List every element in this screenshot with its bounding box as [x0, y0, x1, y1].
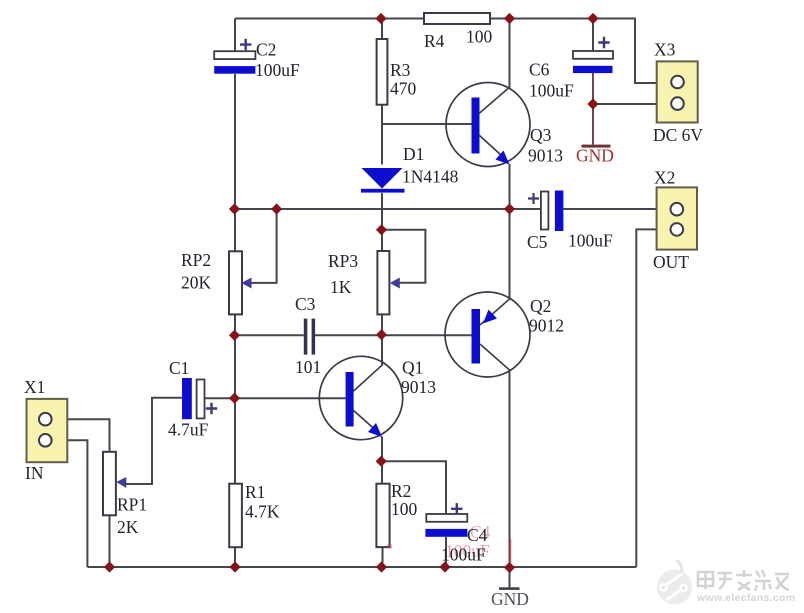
svg-text:9013: 9013: [401, 377, 436, 397]
junction mid rail Q3 emitter: [504, 203, 515, 214]
capacitor C1 positive plate: [197, 380, 205, 419]
svg-text:470: 470: [390, 79, 417, 99]
wire C2 top stub: [234, 19, 236, 52]
transistor Q2 base bar: [472, 309, 481, 364]
wire R3 bottom to D1: [381, 105, 383, 165]
svg-text:C6: C6: [529, 60, 550, 80]
svg-text:100uF: 100uF: [255, 60, 300, 80]
wire R1 bottom stub: [234, 547, 236, 567]
svg-text:4.7K: 4.7K: [245, 502, 280, 522]
wire C4 branch: [382, 461, 446, 514]
junction top rail R3: [375, 13, 386, 24]
wire top rail left segment: [235, 18, 424, 20]
transistor Q2 emitter lead: [480, 299, 510, 326]
capacitor C6 negative plate: [573, 66, 613, 73]
svg-text:RP1: RP1: [117, 495, 147, 515]
svg-text:R3: R3: [390, 60, 411, 80]
svg-text:Q1: Q1: [402, 358, 423, 378]
svg-text:X1: X1: [24, 377, 45, 397]
svg-text:Q2: Q2: [530, 296, 551, 316]
wire Q2 collector to bottom rail: [509, 371, 511, 568]
connector X3 pin 1: [671, 76, 684, 89]
capacitor C2 plus sign: [240, 39, 251, 50]
diode D1: [362, 168, 403, 189]
resistor R3: [377, 39, 388, 105]
wire C2 bottom to RP2: [234, 74, 236, 251]
svg-text:DC 6V: DC 6V: [653, 125, 703, 145]
svg-text:IN: IN: [25, 463, 44, 483]
connector X3 pin 2: [671, 97, 684, 110]
watermark logo pad left: [659, 583, 668, 592]
wire Q3 collector vertical: [509, 19, 511, 88]
wire C5 to X2 pin1: [564, 208, 671, 210]
watermark chinese glyph 5: [775, 574, 789, 590]
transistor Q3 collector lead: [479, 87, 510, 114]
capacitor C4 negative plate: [425, 529, 467, 537]
PLACEHOLDER-TEXT2: [657, 561, 795, 605]
potentiometer RP1: [103, 452, 116, 516]
wire Q1 emitter stub: [381, 437, 383, 462]
transistor Q3 circle: [446, 83, 530, 167]
wire C6 bottom to ground: [592, 73, 594, 145]
svg-text:www.elecfans.com: www.elecfans.com: [696, 592, 795, 604]
transistor Q3 emitter lead: [479, 135, 508, 162]
watermark logo pad right: [679, 584, 688, 593]
junction mid rail RP2 tap: [271, 203, 282, 214]
wire RP2 bottom to R1 top: [234, 314, 236, 483]
watermark chinese glyph 2: [717, 573, 732, 589]
transistor Q1 emitter lead: [353, 410, 380, 434]
wire X3 pin1 feed: [635, 19, 671, 84]
capacitor C4 positive plate: [426, 514, 467, 522]
capacitor C2 positive plate: [214, 51, 255, 59]
capacitor C1 negative plate: [182, 378, 192, 419]
wire X3 pin2 feed: [593, 103, 671, 105]
ground symbol near C6: [582, 145, 611, 148]
capacitor C5 positive plate: [541, 192, 549, 230]
junction RP3 top: [376, 224, 387, 235]
junction bottom rail C4: [439, 561, 450, 572]
transistor Q2 circle: [445, 292, 530, 377]
capacitor C3 right plate: [312, 319, 316, 355]
capacitor C6 positive plate: [573, 51, 613, 59]
junction C3 left: [229, 330, 240, 341]
svg-text:4.7uF: 4.7uF: [168, 420, 209, 440]
wire RP2 wiper tap: [248, 209, 277, 283]
junction C1 Q1 base: [229, 393, 240, 404]
transistor Q1 emitter arrow: [368, 423, 382, 437]
capacitor C1 plus sign: [206, 403, 217, 414]
wire X1 pin1 to RP1 top: [52, 419, 110, 452]
svg-text:GND: GND: [491, 589, 529, 609]
wire RP1 bottom stub: [109, 515, 111, 567]
transistor Q1 collector lead: [353, 365, 383, 392]
svg-text:C5: C5: [527, 232, 548, 252]
potentiometer RP2 wiper arrow: [242, 278, 252, 289]
svg-text:R1: R1: [245, 482, 265, 502]
red artifact near R2 bottom: [387, 545, 393, 549]
capacitor C5 plus sign: [528, 193, 539, 204]
connector X1 body: [27, 399, 68, 462]
svg-text:9013: 9013: [528, 146, 563, 166]
svg-text:100: 100: [466, 27, 493, 47]
svg-text:R4: R4: [424, 31, 445, 51]
svg-text:1K: 1K: [330, 277, 352, 297]
svg-text:100uF: 100uF: [441, 545, 486, 565]
potentiometer RP3: [377, 251, 389, 314]
junction bottom rail R1: [229, 561, 240, 572]
wire RP3 wiper loop: [382, 230, 425, 283]
transistor Q3 emitter arrow: [496, 151, 510, 165]
capacitor C2 negative plate: [214, 66, 255, 74]
wire Q3 emitter to Q2 emitter: [509, 164, 511, 299]
svg-text:9012: 9012: [529, 316, 564, 336]
capacitor C4 plus sign: [451, 503, 462, 514]
transistor Q2 emitter arrow: [483, 310, 497, 324]
junction bottom rail R2: [376, 561, 387, 572]
svg-text:RP3: RP3: [328, 251, 358, 271]
wire bottom rail: [87, 566, 636, 568]
transistor Q1 base bar: [346, 372, 354, 427]
wire mid rail y209: [235, 208, 541, 210]
wire R3 top stub: [381, 19, 383, 40]
watermark logo trace upper: [665, 575, 682, 587]
ground symbol bottom: [499, 587, 520, 590]
svg-text:Q3: Q3: [530, 125, 552, 145]
wire R2 top stub: [381, 461, 383, 484]
wire GND bottom stub: [509, 567, 511, 588]
watermark chinese glyph 3: [736, 570, 752, 590]
wire C1 to Q1 base: [205, 397, 346, 399]
wire D1 cathode to RP3 top: [381, 193, 383, 251]
diode D1 cathode bar: [361, 189, 405, 193]
capacitor C3 left plate: [304, 319, 308, 355]
potentiometer RP1 wiper arrow: [116, 477, 126, 488]
wire RP3 bottom to Q1 collector: [381, 314, 383, 364]
svg-text:2K: 2K: [117, 517, 139, 537]
transistor Q1 circle: [319, 356, 402, 439]
junction bottom rail GND: [504, 562, 515, 573]
svg-text:C3: C3: [295, 294, 316, 314]
junction mid rail C2: [229, 203, 240, 214]
wire X2 pin2 down to bottom rail: [636, 229, 670, 567]
junction bottom rail RP1: [104, 561, 115, 572]
resistor R4: [424, 13, 490, 24]
svg-text:100uF: 100uF: [568, 231, 613, 251]
wire C3 right to Q2 base: [315, 334, 472, 336]
watermark logo stem: [678, 561, 682, 575]
junction Q1 emitter: [376, 456, 387, 467]
wire C3 left: [235, 334, 304, 336]
capacitor C5 negative plate: [555, 191, 564, 232]
svg-text:100: 100: [391, 499, 418, 519]
transistor Q2 collector lead: [480, 344, 510, 371]
wire Q3 base: [382, 123, 472, 125]
watermark logo disk: [657, 570, 692, 605]
watermark logo trace lower: [668, 589, 684, 600]
svg-text:X3: X3: [654, 40, 676, 60]
svg-text:C2: C2: [256, 40, 276, 60]
junction C3 right RP3 bottom: [376, 329, 387, 340]
wire C4 bottom stub: [445, 537, 447, 567]
svg-text:D1: D1: [403, 144, 424, 164]
wire left drop from X1 pin2: [52, 440, 88, 567]
potentiometer RP3 wiper arrow: [390, 278, 400, 289]
watermark chinese glyph 1: [698, 572, 713, 589]
connector X2 body: [657, 187, 697, 249]
junction top rail C6: [587, 13, 598, 24]
svg-text:R2: R2: [391, 481, 411, 501]
transistor Q3 base bar: [472, 98, 480, 154]
svg-text:20K: 20K: [181, 273, 212, 293]
red artifact on Q2 collector wire: [509, 539, 512, 563]
connector X1 pin 2: [39, 434, 52, 447]
wire C6 top stub: [592, 19, 594, 52]
resistor R1: [229, 484, 242, 548]
connector X3 body: [657, 61, 698, 122]
svg-text:RP2: RP2: [181, 250, 211, 270]
wire RP1 wiper to C1: [122, 398, 182, 484]
connector X2 pin 1: [671, 203, 684, 216]
svg-text:101: 101: [295, 357, 321, 377]
svg-text:GND: GND: [576, 146, 614, 166]
connector X2 pin 2: [671, 223, 684, 236]
svg-text:C1: C1: [169, 358, 189, 378]
potentiometer RP2: [229, 251, 242, 314]
connector X1 pin 1: [39, 413, 52, 426]
svg-text:100uF: 100uF: [529, 81, 574, 101]
svg-text:1N4148: 1N4148: [402, 167, 459, 187]
junction C6 bottom X3 pin2: [587, 98, 598, 109]
wire R2 bottom stub: [382, 547, 384, 567]
resistor R2: [376, 484, 389, 547]
svg-text:X2: X2: [654, 168, 675, 188]
watermark chinese glyph 4: [755, 570, 771, 591]
svg-text:OUT: OUT: [653, 252, 689, 272]
wire top rail right segment: [490, 18, 636, 20]
junction top rail Q3 collector: [504, 13, 515, 24]
capacitor C6 plus sign: [598, 37, 609, 48]
